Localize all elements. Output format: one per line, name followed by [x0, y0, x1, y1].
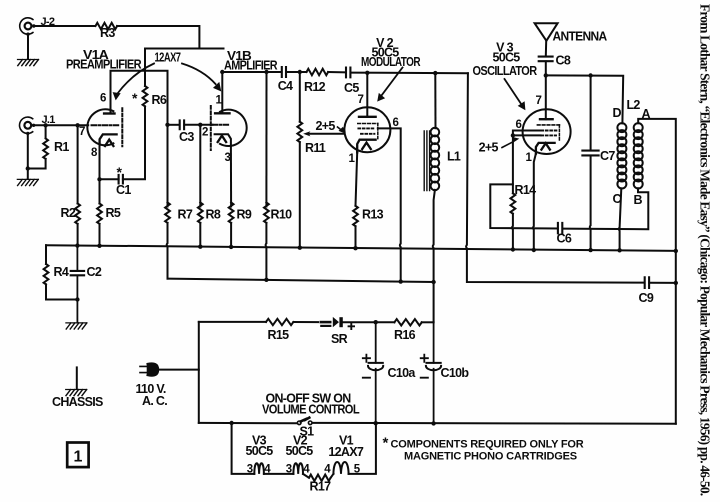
wire R3 to corner, down to W2	[117, 26, 199, 49]
bus H3 left (B+)	[168, 279, 434, 282]
wire L2 A terminal to B- column	[638, 119, 676, 424]
coil L2 primary D-C	[617, 123, 626, 132]
wire SR to R16	[343, 321, 395, 323]
svg-text:3: 3	[286, 464, 292, 476]
node C2 bottom	[75, 297, 79, 301]
svg-text:C6: C6	[557, 232, 572, 246]
wire W2 plate-feed rail	[145, 48, 224, 50]
jack J-2	[20, 18, 33, 34]
AC plug	[140, 364, 148, 375]
chassis ground stub	[76, 367, 78, 388]
capacitor C5	[346, 68, 350, 78]
node J.1/R1	[43, 123, 47, 127]
svg-text:1: 1	[216, 95, 223, 107]
V3 beam tie dashed	[558, 125, 560, 142]
svg-text:6: 6	[100, 93, 106, 105]
tube V2 envelope	[344, 107, 390, 152]
wire C7 column lower crossing H-osc (jog)	[589, 156, 592, 251]
heater V2 pins 3-4	[293, 463, 303, 474]
svg-text:12AX7: 12AX7	[155, 51, 182, 65]
ground (chassis)	[66, 390, 87, 396]
svg-text:C2: C2	[87, 265, 102, 279]
V1B plate lead	[221, 72, 223, 113]
V2 plate lead pin 7	[366, 73, 368, 117]
V2 lower grid dots row	[361, 133, 374, 135]
wire R10 column	[265, 72, 267, 207]
svg-text:5: 5	[354, 464, 361, 476]
wire R6 bottom to C1	[123, 106, 145, 179]
heater V1 pins 4-5	[333, 462, 348, 474]
wire heater V2 to R17	[303, 474, 309, 478]
node R5 H1	[97, 244, 101, 248]
svg-text:C1: C1	[116, 183, 131, 197]
svg-text:R13: R13	[362, 208, 384, 222]
tube V1A envelope	[87, 109, 113, 145]
arrow 2+5 to V2 grid wire	[338, 127, 342, 130]
node riser / H3	[431, 280, 435, 284]
coil L2 secondary A-B	[634, 123, 643, 132]
resistor R5	[97, 204, 102, 224]
V2 pin 6 wire	[378, 128, 401, 281]
node R10 / H3	[264, 278, 268, 282]
resistor R15	[266, 319, 293, 325]
svg-text:D: D	[613, 106, 622, 120]
svg-text:3: 3	[225, 152, 231, 164]
svg-text:6: 6	[516, 119, 522, 131]
svg-text:R1: R1	[54, 140, 69, 154]
svg-text:7: 7	[79, 126, 85, 138]
wire power bottom to S1	[199, 422, 297, 424]
V1B cathode	[215, 134, 231, 146]
wire J.1 ground column	[27, 133, 29, 179]
svg-text:50C5: 50C5	[492, 51, 520, 65]
capacitor C10a	[375, 322, 377, 423]
node C7 / H1	[588, 248, 592, 252]
resistor R1	[45, 125, 47, 137]
svg-text:4: 4	[303, 464, 310, 476]
wire plate rail corner down (B+ feed)	[466, 73, 644, 282]
wire R11 column	[299, 72, 301, 122]
node V1B plate / C4 rail	[220, 70, 224, 74]
node C10a bottom	[374, 421, 378, 425]
node V2 pin7	[365, 71, 369, 75]
svg-text:R3: R3	[100, 26, 115, 40]
svg-text:A: A	[642, 107, 651, 121]
svg-text:2+5: 2+5	[316, 119, 336, 133]
switch S1	[297, 421, 301, 425]
resistor R4	[44, 264, 49, 284]
svg-text:R5: R5	[106, 206, 121, 220]
svg-text:50C5: 50C5	[285, 444, 313, 458]
resistor R3	[96, 23, 118, 29]
svg-text:J.1: J.1	[42, 114, 56, 126]
wire L2 C terminal to H1 crossing H-osc (jog)	[619, 188, 622, 250]
wire C3 to V1B grid	[184, 124, 212, 126]
svg-text:COMPONENTS REQUIRED ONLY FOR: COMPONENTS REQUIRED ONLY FOR	[391, 439, 584, 451]
node R8 / V1B grid	[198, 123, 202, 127]
V1B heater	[218, 136, 226, 142]
node heater loop left	[229, 421, 233, 425]
capacitor C4	[282, 67, 286, 77]
wire C5 to V2 plate node and onward	[351, 72, 468, 75]
wire R8 column	[199, 125, 201, 207]
svg-text:R8: R8	[206, 208, 221, 222]
V2 grid dots row	[358, 127, 374, 129]
wire C4 to R12	[286, 71, 306, 73]
svg-text:R12: R12	[304, 80, 326, 94]
svg-text:C7: C7	[600, 149, 615, 163]
capacitor C6	[558, 223, 562, 233]
wire C7 column upper	[590, 76, 592, 151]
svg-text:8: 8	[91, 147, 98, 159]
tube V3 envelope	[523, 109, 571, 154]
node V1A grid / R2	[75, 123, 79, 127]
heater V3 pins 3-4	[254, 463, 264, 474]
svg-text:CHASSIS: CHASSIS	[52, 395, 103, 409]
R11 wiper arrowhead	[303, 131, 310, 136]
antenna	[535, 23, 558, 41]
wire power left column	[198, 322, 200, 423]
resistor R2	[75, 204, 80, 224]
resistor R17	[309, 475, 331, 481]
node C9 wire / B- column	[674, 281, 678, 285]
svg-text:R16: R16	[394, 328, 416, 342]
jack J.1	[20, 117, 33, 133]
svg-text:L1: L1	[447, 150, 461, 164]
node C3 / R7 column	[165, 123, 169, 127]
wire heater V3 to V2	[264, 473, 294, 475]
resistor R13	[353, 206, 358, 226]
wire R16 to riser/C10b	[422, 321, 434, 323]
V1A cathode	[100, 134, 117, 143]
wire L1 bottom / B+ riser	[433, 190, 435, 322]
svg-text:1: 1	[526, 152, 533, 164]
wire S1 to bottom rail right	[313, 422, 676, 425]
svg-text:C10a: C10a	[388, 366, 417, 380]
wire R2 column	[77, 125, 79, 203]
power top wire left	[199, 321, 266, 323]
svg-text:C3: C3	[179, 130, 194, 144]
resistor R12	[307, 69, 329, 75]
wire V2 cathode to R13	[356, 152, 358, 205]
arrow 2+5 to V3 grid node	[502, 142, 513, 148]
wire R7 column	[167, 125, 169, 207]
svg-text:C4: C4	[278, 79, 293, 93]
svg-text:7: 7	[536, 95, 542, 107]
svg-text:C9: C9	[639, 291, 654, 305]
svg-text:6: 6	[393, 117, 399, 129]
svg-text:3: 3	[247, 464, 253, 476]
svg-text:VOLUME CONTROL: VOLUME CONTROL	[262, 403, 360, 417]
R11 wiper wire from V2 grid	[308, 133, 345, 135]
tube V1B envelope	[220, 110, 247, 146]
svg-text:MODULATOR: MODULATOR	[361, 55, 421, 69]
svg-text:1: 1	[349, 153, 356, 165]
L1 core lines	[424, 131, 429, 191]
node R1 bottom	[26, 166, 30, 170]
svg-text:R6: R6	[152, 93, 167, 107]
svg-text:C8: C8	[556, 54, 571, 68]
V1B grid dashes	[213, 124, 231, 126]
resistor R14	[511, 193, 516, 213]
wire plug to power left column	[158, 369, 199, 371]
svg-text:From Lothar Stern, “Electronic: From Lothar Stern, “Electronics Made Eas…	[698, 4, 713, 496]
coil L1	[434, 73, 436, 128]
node R13 / H1	[353, 246, 357, 250]
wire antenna rail to L2 D	[546, 75, 623, 123]
ground (J-2)	[18, 60, 39, 66]
ground (J.1)	[17, 179, 38, 185]
capacitor C7	[582, 151, 598, 156]
svg-text:ANTENNA: ANTENNA	[553, 30, 608, 44]
capacitor C3	[180, 120, 184, 129]
node R11 / H1	[298, 246, 302, 250]
wire C8 to V3 plate node	[545, 61, 547, 119]
svg-text:R11: R11	[305, 141, 326, 155]
wire R12 to C5	[328, 71, 346, 73]
arrow MODULATOR to V2	[380, 68, 402, 98]
svg-text:A. C.: A. C.	[142, 394, 167, 408]
rectifier SR	[321, 321, 330, 324]
node R11 top	[298, 70, 302, 74]
node L2 C / H1	[617, 248, 621, 252]
capacitor C10b	[433, 322, 435, 423]
svg-text:2+5: 2+5	[479, 141, 499, 155]
V1A grid dashes	[92, 124, 120, 126]
resistor R16	[394, 319, 421, 325]
wire J-2 to R3	[34, 25, 96, 27]
wire R14 top loop to H-osc left end	[490, 184, 557, 228]
wire R7 bottom crossing H1 (jog) to H3 corner	[166, 223, 169, 279]
svg-text:R10: R10	[271, 208, 293, 222]
node pin6/grid junction	[511, 133, 515, 137]
figure number box 1	[67, 443, 88, 468]
V3 screen dashes	[537, 124, 559, 126]
svg-text:J-2: J-2	[41, 16, 55, 28]
svg-text:C10b: C10b	[441, 366, 470, 380]
MORE SECTIONS APPENDED BELOW	[44, 23, 678, 424]
arrow 12AX7 to V1A	[118, 64, 155, 94]
wire J.1 to V1A grid	[33, 124, 88, 126]
plus/minus C10a	[362, 354, 371, 378]
V1A plate	[104, 112, 114, 114]
bus H1 (ground/B-)	[46, 245, 676, 251]
wire heater V1 to right riser	[349, 423, 376, 474]
capacitor C8	[539, 57, 553, 62]
svg-text:12AX7: 12AX7	[328, 445, 363, 459]
capacitor C2	[76, 246, 78, 323]
svg-text:R4: R4	[54, 265, 69, 279]
svg-text:MAGNETIC PHONO CARTRIDGES: MAGNETIC PHONO CARTRIDGES	[404, 451, 577, 463]
svg-text:SR: SR	[331, 332, 348, 346]
svg-text:AMPLIFIER: AMPLIFIER	[224, 59, 278, 73]
V3 lower grid dots row	[542, 134, 557, 136]
node H1 right end	[674, 249, 678, 253]
svg-text:2: 2	[202, 127, 208, 139]
wire antenna to C8	[545, 41, 547, 57]
V1B plate	[215, 112, 229, 114]
node pin6 / H3	[399, 279, 403, 283]
potentiometer R11	[297, 122, 302, 142]
svg-text:7: 7	[358, 94, 364, 106]
svg-text:R17: R17	[310, 480, 332, 494]
wire R14 bottom crossing H-osc (jog) to H1	[511, 214, 514, 250]
V3 plate	[540, 118, 553, 120]
wire heater loop left column	[232, 423, 255, 474]
arrow OSCILLATOR to V3	[505, 79, 523, 105]
resistor R8	[198, 203, 203, 223]
node antenna rail	[544, 73, 548, 77]
capacitor C9	[645, 277, 649, 288]
node C7 top	[588, 73, 592, 77]
node L1 top	[433, 71, 437, 75]
svg-text:1: 1	[73, 449, 82, 466]
node V3 cathode / H1	[532, 248, 536, 252]
V2 heater	[362, 143, 371, 149]
svg-text:R9: R9	[237, 208, 252, 222]
wire R9 column (V1B cathode)	[230, 146, 232, 207]
V2 cathode	[357, 140, 375, 153]
V3 grid dots row	[542, 130, 559, 132]
wire plate to C4	[222, 71, 281, 73]
wire C6 to L2 B terminal	[563, 188, 649, 229]
node R10 top	[264, 70, 268, 74]
V1A heater	[105, 140, 113, 146]
resistor R10	[264, 203, 269, 223]
svg-text:R15: R15	[268, 328, 290, 342]
svg-text:R2: R2	[61, 206, 76, 220]
svg-text:*: *	[383, 435, 389, 452]
arrow 12AX7 to V1B	[182, 64, 216, 85]
plus/minus C10b	[420, 354, 429, 378]
svg-text:*: *	[132, 90, 138, 106]
svg-text:L2: L2	[627, 98, 641, 112]
node C10a top	[374, 320, 378, 324]
wire R4 bottom to C2 bottom	[46, 284, 77, 299]
wire C9 to B- column	[649, 282, 676, 284]
V2 beam tie dashed	[377, 124, 379, 141]
V3 cathode	[536, 143, 555, 154]
svg-text:C5: C5	[344, 81, 359, 95]
wire R15 to SR	[293, 321, 318, 323]
node R2/C2 H1	[75, 243, 79, 247]
node R14 / H1	[511, 247, 515, 251]
node R8 H1	[198, 245, 202, 249]
resistor R7	[165, 203, 170, 223]
node C10b bottom	[431, 421, 435, 425]
node C1 / cathode	[97, 177, 101, 181]
svg-text:*: *	[117, 164, 123, 180]
svg-text:R7: R7	[178, 208, 193, 222]
resistor R9	[229, 203, 234, 223]
wire V3 cathode to H1 crossing H-osc (jog)	[533, 154, 536, 250]
svg-text:C: C	[613, 192, 622, 206]
svg-text:50C5: 50C5	[245, 444, 273, 458]
wire W1 V1A plate rail	[111, 71, 168, 125]
wire R17 to heater V1	[331, 474, 334, 478]
wire C1 left to cathode column	[100, 178, 119, 180]
wire H1 left end down to R4	[45, 245, 47, 264]
V3 pin 6 wire	[513, 131, 541, 194]
wire R10 bottom crossing H1 (jog) to H3 dot	[265, 223, 268, 280]
resistor R6	[143, 86, 148, 106]
V3 grid 2+5 wire	[513, 134, 541, 136]
svg-text:PREAMPLIFIER: PREAMPLIFIER	[66, 58, 142, 72]
node R9 H1	[229, 245, 233, 249]
wire R5 column (V1A cathode)	[99, 144, 101, 204]
svg-text:4: 4	[264, 464, 271, 476]
capacitor C1	[119, 175, 123, 184]
svg-text:B: B	[634, 193, 643, 207]
wire R6 column top	[144, 49, 146, 87]
ground (C2)	[66, 323, 87, 329]
svg-text:OSCILLATOR: OSCILLATOR	[473, 64, 538, 78]
svg-text:4: 4	[324, 464, 331, 476]
plus sign SR	[348, 323, 355, 330]
wire C3 left	[168, 124, 180, 126]
wire J-2 ground stub	[27, 34, 29, 59]
V2 plate	[359, 116, 376, 118]
V3 heater	[541, 143, 550, 149]
svg-text:R14: R14	[515, 183, 537, 197]
V2 screen dashes	[358, 123, 378, 125]
